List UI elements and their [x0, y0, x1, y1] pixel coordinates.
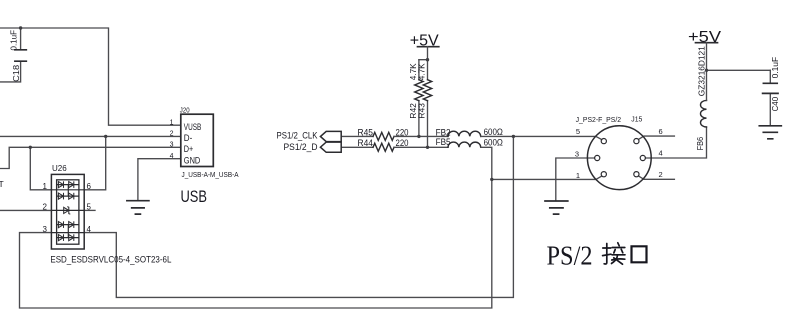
svg-text:FB2: FB2: [436, 127, 451, 137]
svg-text:J15: J15: [631, 114, 642, 123]
svg-text:D-: D-: [184, 133, 193, 144]
svg-text:T: T: [0, 179, 4, 189]
svg-text:2: 2: [659, 170, 663, 179]
svg-text:R43: R43: [417, 103, 427, 119]
svg-text:R45: R45: [358, 127, 374, 137]
svg-text:+5V: +5V: [688, 29, 721, 46]
svg-text:1: 1: [170, 119, 174, 126]
svg-text:1: 1: [576, 171, 580, 180]
svg-text:5: 5: [87, 203, 92, 212]
svg-text:J_USB-A-M_USB-A: J_USB-A-M_USB-A: [182, 172, 239, 179]
svg-text:C18: C18: [11, 65, 21, 82]
svg-text:4.7K: 4.7K: [417, 63, 427, 80]
svg-text:2: 2: [43, 203, 48, 212]
svg-text:3: 3: [170, 142, 174, 149]
svg-text:R44: R44: [358, 138, 374, 148]
svg-text:3: 3: [575, 150, 579, 159]
svg-text:J_PS2-F_PS/2: J_PS2-F_PS/2: [576, 115, 622, 124]
svg-text:2: 2: [170, 131, 174, 138]
svg-text:6: 6: [659, 127, 663, 136]
svg-text:3: 3: [43, 225, 48, 234]
svg-text:0.1uF: 0.1uF: [8, 30, 18, 51]
svg-text:D+: D+: [184, 144, 194, 155]
svg-text:600Ω: 600Ω: [484, 127, 504, 137]
svg-text:4: 4: [659, 149, 663, 158]
svg-text:+5V: +5V: [410, 32, 439, 49]
svg-text:U26: U26: [52, 164, 67, 173]
svg-text:4: 4: [170, 153, 174, 160]
svg-text:5: 5: [576, 127, 580, 136]
svg-text:PS/2: PS/2: [547, 240, 593, 270]
svg-text:GND: GND: [184, 155, 201, 166]
svg-text:0.1uF: 0.1uF: [770, 57, 780, 79]
svg-text:ESD_ESDSRVLC05-4_SOT23-6L: ESD_ESDSRVLC05-4_SOT23-6L: [50, 255, 171, 266]
svg-text:C40: C40: [770, 97, 780, 112]
svg-text:4: 4: [87, 225, 92, 234]
svg-text:220: 220: [396, 127, 409, 137]
svg-text:1: 1: [43, 182, 48, 191]
svg-text:PS1/2_D: PS1/2_D: [284, 142, 318, 153]
svg-text:VUSB: VUSB: [184, 122, 202, 133]
svg-text:220: 220: [396, 138, 409, 148]
svg-text:600Ω: 600Ω: [484, 137, 504, 147]
svg-text:GZ3216D121: GZ3216D121: [697, 46, 707, 96]
svg-text:PS1/2_CLK: PS1/2_CLK: [277, 131, 319, 142]
svg-text:FB5: FB5: [436, 137, 451, 147]
svg-text:USB: USB: [181, 187, 208, 206]
svg-text:J20: J20: [180, 108, 190, 115]
svg-text:FB6: FB6: [695, 137, 705, 151]
svg-text:6: 6: [87, 182, 92, 191]
